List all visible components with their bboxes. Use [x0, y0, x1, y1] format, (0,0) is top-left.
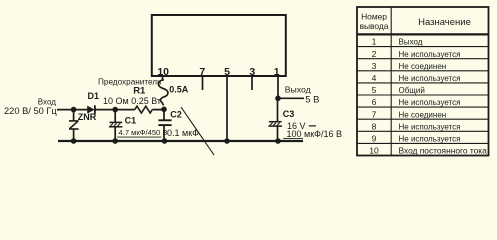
svg-text:1: 1: [372, 37, 377, 47]
node output junction: [275, 96, 281, 102]
stray diagonal leader line: [181, 107, 214, 155]
svg-text:вывода: вывода: [360, 21, 389, 31]
pin 10 label: [157, 66, 169, 78]
wire pin 1 down to output node: [277, 76, 279, 98]
resistor R1 value 10 Ом 0.25 Вт: [103, 96, 161, 106]
pin 5 label: [224, 66, 230, 78]
svg-text:10: 10: [369, 145, 379, 155]
label Выход: [285, 84, 311, 94]
svg-text:Не используется: Не используется: [399, 122, 461, 131]
op-amp U1 (IC body): [152, 15, 286, 76]
svg-text:0.5А: 0.5А: [169, 85, 189, 95]
svg-text:6: 6: [372, 97, 377, 107]
svg-text:Выход: Выход: [285, 84, 311, 94]
node pin5 bottom: [224, 138, 230, 144]
wire D1 to R1: [94, 109, 135, 111]
resistor R1 label: [133, 86, 146, 97]
label C2: [170, 109, 182, 119]
fuse 0.5A: [158, 80, 167, 106]
fuse label Предохранитель: [98, 78, 161, 87]
node C1 bottom: [112, 138, 118, 144]
svg-text:D1: D1: [88, 91, 100, 101]
table row 1: [372, 37, 423, 47]
svg-text:Вход постоянного тока: Вход постоянного тока: [399, 145, 488, 155]
svg-text:Общий: Общий: [399, 86, 425, 95]
svg-text:8: 8: [372, 121, 377, 131]
svg-text:2: 2: [372, 49, 377, 59]
table row 7: [372, 109, 447, 119]
svg-text:5: 5: [372, 85, 377, 95]
capacitor C1: [109, 110, 122, 141]
capacitor C3: [269, 98, 283, 141]
svg-text:7: 7: [372, 109, 377, 119]
resistor R1: [135, 106, 152, 113]
table row 10: [369, 145, 487, 155]
label ZNR: [78, 112, 97, 122]
label C3: [283, 109, 295, 119]
svg-text:4: 4: [372, 73, 377, 83]
input label 220 В / 50 Гц: [4, 106, 57, 116]
table row 2: [372, 49, 461, 59]
svg-text:3: 3: [372, 61, 377, 71]
svg-text:5 В: 5 В: [305, 94, 319, 105]
node C1 top junction: [112, 107, 118, 113]
svg-text:Не соединен: Не соединен: [399, 62, 447, 71]
table row 3: [372, 61, 447, 71]
svg-text:10 Ом 0.25 Вт: 10 Ом 0.25 Вт: [103, 96, 161, 106]
svg-text:Выход: Выход: [399, 38, 423, 47]
svg-text:C1: C1: [125, 115, 137, 125]
svg-text:Вход: Вход: [38, 97, 56, 106]
node C2 bottom: [162, 138, 168, 144]
value 4.7 мкФ/450 В: [117, 128, 167, 137]
pin 3 label: [249, 66, 255, 78]
label 5 В: [305, 94, 319, 105]
pin 7 label: [199, 66, 205, 78]
svg-text:9: 9: [372, 134, 377, 144]
svg-text:220 В/ 50 Гц: 220 В/ 50 Гц: [4, 106, 57, 116]
table row 9: [372, 134, 461, 144]
capacitor C2: [158, 109, 171, 141]
diode D1: [87, 105, 95, 114]
svg-text:Назначение: Назначение: [418, 17, 471, 28]
node C3 bottom: [275, 138, 281, 144]
varistor ZNR: [69, 110, 79, 141]
label C1: [125, 115, 137, 125]
wire R1 to fuse node: [152, 109, 164, 111]
node ZNR top junction: [71, 107, 77, 113]
pin 1 label: [274, 66, 280, 78]
wire top line input to D1: [57, 109, 88, 111]
table row 6: [372, 97, 461, 107]
wire pin 5 to ground rail: [226, 76, 228, 141]
node ZNR bottom: [71, 138, 77, 144]
svg-text:C2: C2: [170, 109, 182, 119]
wire pin 3 stub: [251, 76, 253, 90]
svg-text:4.7 мкФ/450 В: 4.7 мкФ/450 В: [119, 128, 168, 137]
table row 4: [372, 73, 461, 83]
diode D1 label: [88, 91, 100, 101]
table row 8: [372, 121, 461, 131]
svg-text:Не соединен: Не соединен: [399, 110, 447, 119]
value 16 V -: [287, 121, 316, 131]
ground rail (common): [58, 140, 303, 142]
input label Вход: [38, 97, 56, 106]
wire pin 7 stub: [202, 76, 204, 90]
value 0.1 мкФ: [167, 128, 199, 138]
value 100 мкФ/16 В: [283, 129, 342, 139]
table header Номер вывода: [360, 12, 389, 31]
pin assignment table frame: [357, 7, 489, 156]
svg-text:Не используется: Не используется: [399, 74, 461, 83]
svg-text:Не используется: Не используется: [399, 98, 461, 107]
svg-text:0.1 мкФ: 0.1 мкФ: [167, 128, 199, 138]
wire output to 5V: [278, 97, 304, 99]
node fuse/C2 junction: [161, 107, 167, 113]
svg-text:100 мкФ/16 В: 100 мкФ/16 В: [287, 129, 343, 139]
label 0.5А: [169, 85, 189, 95]
table row 5: [372, 85, 425, 95]
wire pin 10 stub: [162, 76, 164, 81]
table header Назначение: [418, 17, 471, 28]
svg-text:Предохранитель: Предохранитель: [98, 78, 161, 87]
svg-text:Не используется: Не используется: [399, 50, 461, 59]
svg-text:Не используется: Не используется: [399, 135, 461, 144]
svg-text:1: 1: [274, 66, 280, 78]
svg-text:C3: C3: [283, 109, 295, 119]
